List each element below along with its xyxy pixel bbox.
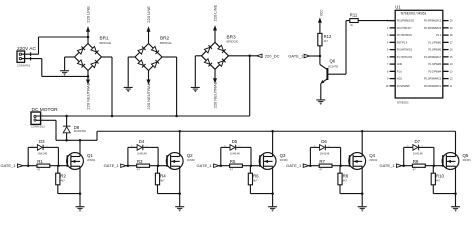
svg-text:4k7: 4k7 (160, 179, 165, 183)
svg-text:P1.2: P1.2 (436, 34, 442, 37)
svg-text:20N60: 20N60 (187, 158, 196, 162)
svg-text:Q3: Q3 (280, 153, 286, 158)
svg-text:R3: R3 (137, 159, 143, 164)
svg-text:R11: R11 (350, 12, 358, 17)
svg-text:20N60: 20N60 (87, 158, 96, 162)
svg-text:4k7: 4k7 (343, 179, 348, 183)
svg-text:A1: A1 (31, 145, 33, 148)
svg-text:220 NEUTRAL: 220 NEUTRAL (213, 81, 218, 108)
svg-text:BC547B: BC547B (328, 65, 338, 69)
svg-text:4k7: 4k7 (324, 39, 329, 43)
svg-text:VDD: VDD (397, 78, 402, 81)
svg-text:GATE_1: GATE_1 (197, 163, 213, 168)
svg-text:220 NEUTRAL: 220 NEUTRAL (146, 82, 151, 109)
svg-text:R10: R10 (436, 174, 445, 179)
svg-text:4k7: 4k7 (253, 179, 258, 183)
svg-text:Q6: Q6 (330, 59, 336, 64)
svg-text:4k7: 4k7 (436, 179, 441, 183)
svg-text:Q2: Q2 (187, 153, 193, 158)
svg-text:N76E003 / MS51: N76E003 / MS51 (401, 11, 427, 15)
svg-text:P1.3/PWM0: P1.3/PWM0 (428, 63, 441, 66)
svg-text:P1.7/INT1/IC0: P1.7/INT1/IC0 (397, 56, 413, 59)
svg-text:P0.7/RXD/IC5: P0.7/RXD/IC5 (397, 34, 413, 37)
svg-text:R6: R6 (253, 174, 259, 179)
svg-text:P0.1/PWM4/IC2: P0.1/PWM4/IC2 (424, 78, 442, 81)
svg-text:U1: U1 (395, 5, 401, 10)
svg-text:P1.4/PWM4/IC7: P1.4/PWM4/IC7 (424, 56, 442, 59)
svg-text:A1: A1 (407, 145, 409, 148)
svg-text:A1: A1 (314, 145, 316, 148)
svg-text:47: 47 (230, 168, 234, 172)
svg-text:20N60: 20N60 (280, 158, 289, 162)
svg-text:MUR1560: MUR1560 (74, 129, 87, 133)
svg-text:CONN-SIL2: CONN-SIL2 (31, 124, 45, 128)
svg-text:GATE_1: GATE_1 (0, 163, 16, 168)
svg-text:20N60: 20N60 (369, 158, 378, 162)
svg-text:47: 47 (413, 168, 417, 172)
svg-text:P1.5/PWM5: P1.5/PWM5 (397, 85, 410, 88)
svg-text:1N4148: 1N4148 (413, 152, 423, 156)
svg-text:Q4: Q4 (369, 153, 375, 158)
svg-text:P1.0/PWM2: P1.0/PWM2 (428, 49, 441, 52)
svg-text:1N4148: 1N4148 (37, 152, 47, 156)
svg-text:D7: D7 (415, 139, 421, 144)
svg-text:GND: GND (397, 63, 403, 66)
svg-text:C1: C1 (328, 146, 330, 148)
svg-text:1N4148: 1N4148 (137, 152, 147, 156)
svg-text:4k7: 4k7 (60, 179, 65, 183)
svg-text:RST/P2.0: RST/P2.0 (397, 41, 408, 44)
svg-text:R8: R8 (343, 174, 349, 179)
svg-text:R1: R1 (37, 159, 43, 164)
svg-text:GATE_1: GATE_1 (379, 163, 395, 168)
svg-text:D3: D3 (39, 139, 45, 144)
svg-text:R9: R9 (413, 159, 419, 164)
svg-text:R5: R5 (230, 159, 236, 164)
svg-text:D6: D6 (321, 139, 327, 144)
svg-text:D8: D8 (74, 125, 80, 130)
svg-text:R2: R2 (60, 174, 66, 179)
svg-text:C1: C1 (238, 146, 240, 148)
svg-text:VCC: VCC (319, 9, 323, 16)
svg-text:220 LINE: 220 LINE (146, 6, 151, 23)
svg-text:BRIDGE: BRIDGE (227, 40, 239, 44)
svg-text:220 LINE: 220 LINE (213, 4, 218, 21)
svg-text:P0.5/PWM2/IC6: P0.5/PWM2/IC6 (397, 20, 415, 23)
svg-text:GATE_1: GATE_1 (286, 163, 302, 168)
svg-text:20N60: 20N60 (463, 158, 472, 162)
svg-text:R4: R4 (160, 174, 166, 179)
svg-text:CONN-PA2: CONN-PA2 (17, 63, 31, 67)
svg-text:D5: D5 (232, 139, 238, 144)
svg-text:R12: R12 (324, 34, 332, 39)
svg-text:220 NEUTRAL: 220 NEUTRAL (86, 82, 91, 109)
svg-text:C1: C1 (421, 146, 423, 148)
svg-text:A1: A1 (131, 145, 133, 148)
svg-text:GATE_1: GATE_1 (104, 163, 120, 168)
svg-text:P1.6: P1.6 (397, 70, 403, 73)
svg-text:P0.4/PWM3/IC3: P0.4/PWM3/IC3 (424, 20, 442, 23)
svg-text:Q5: Q5 (463, 153, 469, 158)
svg-text:47: 47 (319, 168, 323, 172)
svg-text:P0.2/PWM4: P0.2/PWM4 (428, 70, 441, 73)
svg-text:220 LINE: 220 LINE (86, 6, 91, 23)
svg-text:C1: C1 (46, 146, 48, 148)
svg-text:1N4148: 1N4148 (320, 152, 330, 156)
svg-text:P1.1/PWM1: P1.1/PWM1 (428, 41, 441, 44)
svg-text:A1: A1 (224, 145, 226, 148)
svg-text:GATE_1: GATE_1 (288, 53, 304, 58)
svg-text:D4: D4 (139, 139, 145, 144)
svg-text:47: 47 (37, 168, 41, 172)
svg-text:P0.6/TXD/IC7: P0.6/TXD/IC7 (397, 27, 412, 30)
svg-text:1N4148: 1N4148 (230, 152, 240, 156)
svg-text:N76E003: N76E003 (397, 101, 409, 105)
svg-text:R7: R7 (319, 159, 325, 164)
svg-text:47: 47 (137, 168, 141, 172)
svg-text:C1: C1 (145, 146, 147, 148)
svg-text:P3.0/INT0/IC3: P3.0/INT0/IC3 (397, 49, 413, 52)
svg-text:BRIDGE: BRIDGE (100, 41, 112, 45)
svg-text:Q1: Q1 (87, 153, 93, 158)
svg-text:220_DC: 220_DC (265, 53, 280, 58)
svg-text:P0.3/PWM5/IC6: P0.3/PWM5/IC6 (424, 27, 442, 30)
svg-text:P0.0/PWM3/IC1: P0.0/PWM3/IC1 (424, 85, 442, 88)
svg-text:BRIDGE: BRIDGE (160, 41, 172, 45)
